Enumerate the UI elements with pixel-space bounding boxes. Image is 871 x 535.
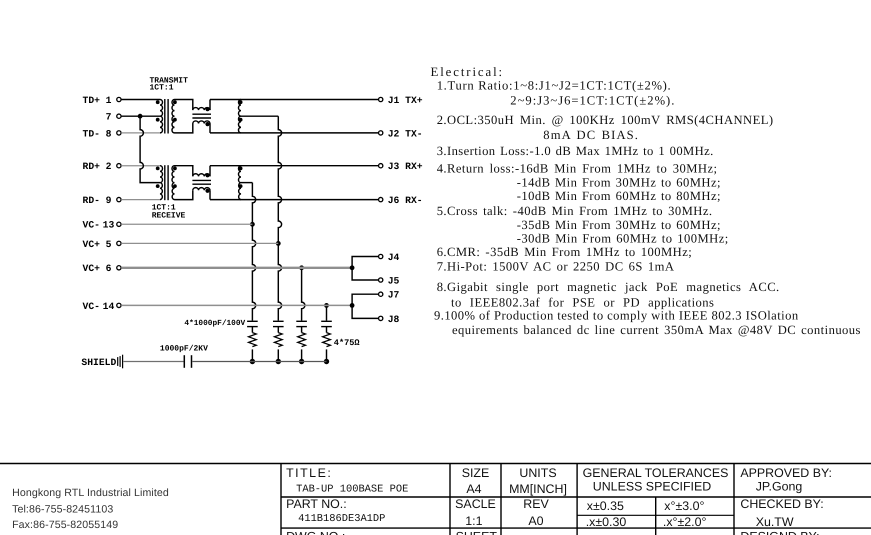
svg-text:SACLE: SACLE xyxy=(455,497,496,511)
wire pin7 lead xyxy=(121,115,160,117)
capacitor C5 (1000pF/2KV) xyxy=(184,355,191,368)
wire secondary bottom to choke CM2 (receive) xyxy=(175,190,193,199)
terminal circle J4 xyxy=(379,254,383,258)
svg-text:J5: J5 xyxy=(388,275,400,286)
svg-text:1:1: 1:1 xyxy=(465,514,482,528)
svg-text:UNLESS SPECIFIED: UNLESS SPECIFIED xyxy=(593,480,711,494)
wire C3 to R3 xyxy=(301,327,303,333)
pin 5 terminal circle xyxy=(117,241,121,245)
inductor L1 (transmit) phase dots xyxy=(239,100,243,121)
svg-text:RECEIVE: RECEIVE xyxy=(152,211,186,220)
svg-text:x±0.35: x±0.35 xyxy=(587,499,624,513)
junction shield bus 4 xyxy=(324,359,329,364)
inductor L1 (transmit) winding xyxy=(238,100,241,133)
svg-text:J3 RX+: J3 RX+ xyxy=(388,161,423,172)
svg-text:-10dB Min From 60MHz to 80MHz;: -10dB Min From 60MHz to 80MHz; xyxy=(517,189,721,203)
electrical notes text block xyxy=(431,65,861,337)
svg-text:13: 13 xyxy=(103,220,115,231)
svg-text:J6 RX-: J6 RX- xyxy=(388,195,423,206)
svg-text:5: 5 xyxy=(106,239,112,250)
svg-text:9: 9 xyxy=(106,195,112,206)
svg-text:1000pF/2KV: 1000pF/2KV xyxy=(160,344,208,353)
svg-text:-14dB Min From 30MHz to 60MHz;: -14dB Min From 30MHz to 60MHz; xyxy=(517,176,721,190)
transformer T1 (transmit) primary winding xyxy=(160,100,163,133)
svg-text:7: 7 xyxy=(106,112,112,123)
svg-text:411B186DE3A1DP: 411B186DE3A1DP xyxy=(298,513,385,525)
capacitor C3 (1000pF/100V) xyxy=(296,321,307,326)
svg-text:TD+: TD+ xyxy=(83,95,101,106)
terminal circle J3 xyxy=(379,164,383,168)
inductor L2 (receive) winding xyxy=(238,166,241,200)
svg-text:VC+: VC+ xyxy=(83,239,101,250)
junction shield bus 2 xyxy=(276,359,281,364)
svg-text:Hongkong RTL Industrial Limite: Hongkong RTL Industrial Limited xyxy=(12,487,169,499)
junction V3 / VC+6 xyxy=(299,265,304,270)
svg-text:TITLE:: TITLE: xyxy=(286,466,332,480)
choke CM1 (transmit) top winding xyxy=(193,108,210,111)
svg-text:A0: A0 xyxy=(528,514,543,528)
pin 2 terminal circle xyxy=(117,164,121,168)
svg-text:5.Cross talk: -40dB Min From: 5.Cross talk: -40dB Min From 1MHz to 30M… xyxy=(437,204,713,218)
svg-text:14: 14 xyxy=(103,301,115,312)
svg-text:equirements balanced dc line c: equirements balanced dc line current 350… xyxy=(452,323,861,337)
junction pin7 xyxy=(138,114,143,119)
svg-text:1.Turn Ratio:1~8:J1~J2=1CT:1CT: 1.Turn Ratio:1~8:J1~J2=1CT:1CT(±2%). xyxy=(437,79,672,93)
junction VC+6 / J4-J5 bracket xyxy=(350,265,355,270)
svg-text:SIZE: SIZE xyxy=(462,466,490,480)
pin 8 terminal circle xyxy=(117,131,121,135)
svg-text:3.Insertion Loss:-1.0 dB Max 1: 3.Insertion Loss:-1.0 dB Max 1MHz to 1 0… xyxy=(437,144,714,158)
capacitor C4 (1000pF/100V) xyxy=(321,321,332,326)
wire R2 to shield bus xyxy=(277,349,279,361)
terminal circle J2 xyxy=(379,131,383,135)
wire pin9 lead xyxy=(121,199,160,201)
svg-text:GENERAL TOLERANCES: GENERAL TOLERANCES xyxy=(583,466,729,480)
svg-text:4.Return loss:-16dB Min From 1: 4.Return loss:-16dB Min From 1MHz to 30M… xyxy=(437,161,718,175)
svg-text:Electrical:: Electrical: xyxy=(431,65,504,79)
wire C2 to R2 xyxy=(277,327,279,333)
choke CM2 (receive) bottom winding phase dot xyxy=(205,189,209,193)
svg-text:6.CMR: -35dB Min From 1MHz to: 6.CMR: -35dB Min From 1MHz to 100MHz; xyxy=(437,245,693,259)
svg-text:TAB-UP 100BASE POE: TAB-UP 100BASE POE xyxy=(296,483,408,495)
junction V1 / VC-13 xyxy=(250,222,255,227)
wire secondary top to choke CM1 (transmit) xyxy=(175,100,193,111)
svg-text:RD-: RD- xyxy=(83,195,100,206)
junction shield bus 1 xyxy=(250,359,255,364)
choke CM2 (receive) top winding xyxy=(193,174,210,177)
wire choke CM1 (transmit) bottom right riser xyxy=(209,124,211,133)
svg-text:-35dB Min From 30MHz to 60MHz;: -35dB Min From 30MHz to 60MHz; xyxy=(517,218,721,232)
transformer T2 (receive) core xyxy=(165,165,168,200)
wire bus V1 vertical xyxy=(252,183,255,321)
svg-text:8mA DC BIAS.: 8mA DC BIAS. xyxy=(543,128,639,142)
svg-text:VC+: VC+ xyxy=(83,263,101,274)
wire C4 to R4 xyxy=(326,327,328,333)
company name text xyxy=(12,487,169,531)
svg-text:J7: J7 xyxy=(388,290,400,301)
svg-text:9.100% of Production tested to: 9.100% of Production tested to comply wi… xyxy=(434,309,799,323)
pin 1 terminal circle xyxy=(117,97,121,101)
transformer T2 (receive) secondary phase dots xyxy=(173,167,177,189)
svg-text:J2 TX-: J2 TX- xyxy=(388,128,423,139)
choke CM2 (receive) core xyxy=(192,180,211,184)
svg-text:APPROVED BY:: APPROVED BY: xyxy=(740,466,832,480)
wire J3 line xyxy=(210,165,379,167)
terminal circle J6 xyxy=(379,197,383,201)
svg-text:DESIGND BY:: DESIGND BY: xyxy=(740,530,819,535)
wire choke CM2 (receive) bottom right riser xyxy=(209,190,211,199)
wire VC+6 lead xyxy=(121,267,352,269)
svg-text:TD-: TD- xyxy=(83,128,100,139)
choke CM1 (transmit) bottom winding xyxy=(193,121,210,124)
choke CM2 (receive) bottom winding xyxy=(193,188,210,191)
junction V4 / VC-14 xyxy=(324,303,329,308)
terminal circle J5 xyxy=(379,278,383,282)
svg-text:VC-: VC- xyxy=(83,220,100,231)
wire pin7 to RX center tap xyxy=(140,116,160,182)
svg-text:RD+: RD+ xyxy=(83,161,101,172)
wire secondary bottom to choke CM1 (transmit) xyxy=(175,124,193,133)
wire J2 line xyxy=(210,132,379,134)
choke CM1 (transmit) core xyxy=(192,114,211,118)
svg-text:Xu.TW: Xu.TW xyxy=(756,515,794,529)
transformer T2 (receive) primary phase dots xyxy=(156,167,160,189)
svg-text:SHIELD: SHIELD xyxy=(81,357,116,368)
wire J7-J8 bracket xyxy=(352,294,379,318)
wire bus V4 vertical xyxy=(326,305,328,320)
wire pin1 lead xyxy=(121,99,160,101)
wire pin8 lead xyxy=(121,132,160,134)
wire shield bus xyxy=(192,361,326,363)
wire VC-14 lead xyxy=(121,304,352,306)
choke CM1 (transmit) bottom winding phase dot xyxy=(205,122,209,126)
choke CM1 (transmit) top winding phase dot xyxy=(205,107,209,111)
pin 13 terminal circle xyxy=(117,222,121,226)
svg-text:to IEEE802.3af for PSE or PD a: to IEEE802.3af for PSE or PD application… xyxy=(451,296,714,310)
terminal circle J1 xyxy=(379,97,383,101)
svg-text:JP.Gong: JP.Gong xyxy=(756,480,803,494)
transformer T1 (transmit) primary phase dots xyxy=(156,100,160,121)
svg-text:.x±0.30: .x±0.30 xyxy=(586,515,627,529)
wire VC+5 lead xyxy=(121,242,278,244)
title block top border xyxy=(0,463,871,465)
junction shield bus 3 xyxy=(299,359,304,364)
wire bus V3 vertical xyxy=(302,268,305,321)
svg-text:J4: J4 xyxy=(388,252,400,263)
svg-text:1CT:1: 1CT:1 xyxy=(150,84,174,93)
svg-text:PART NO.:: PART NO.: xyxy=(286,497,347,511)
wire VC-13 lead xyxy=(121,223,252,225)
svg-text:2: 2 xyxy=(106,161,112,172)
resistor R2 (75ohm) xyxy=(274,333,282,347)
pin 6 terminal circle xyxy=(117,266,121,270)
svg-text:8: 8 xyxy=(106,128,112,139)
choke CM2 (receive) top winding phase dot xyxy=(205,173,209,177)
svg-text:4*75Ω: 4*75Ω xyxy=(334,338,360,348)
capacitor C1 (1000pF/100V) xyxy=(247,321,258,326)
svg-text:J8: J8 xyxy=(388,314,400,325)
wire bus V2 vertical xyxy=(278,116,281,320)
title block verticals xyxy=(281,464,734,535)
transformer T2 (receive) secondary winding xyxy=(172,166,175,200)
junction VC-14 / J7-J8 bracket xyxy=(350,303,355,308)
title block labels xyxy=(286,466,832,535)
wire R3 to shield bus xyxy=(301,349,303,361)
capacitor C2 (1000pF/100V) xyxy=(273,321,284,326)
svg-text:6: 6 xyxy=(106,263,112,274)
pin 9 terminal circle xyxy=(117,197,121,201)
wire L2 center tap to bus V1 xyxy=(241,182,252,184)
wire choke CM2 (receive) top right riser xyxy=(209,166,211,177)
svg-text:4*1000pF/100V: 4*1000pF/100V xyxy=(184,319,245,328)
inductor L2 (receive) phase dots xyxy=(239,167,243,189)
svg-text:2.OCL:350uH Min. @ 100KHz 100m: 2.OCL:350uH Min. @ 100KHz 100mV RMS(4CHA… xyxy=(437,113,774,127)
wire C1 to R1 xyxy=(251,327,253,333)
shield symbol (triple bar) xyxy=(118,355,123,369)
svg-text:2~9:J3~J6=1CT:1CT(±2%).: 2~9:J3~J6=1CT:1CT(±2%). xyxy=(510,93,675,107)
svg-text:7.Hi-Pot: 1500V AC or 2250 DC: 7.Hi-Pot: 1500V AC or 2250 DC 6S 1mA xyxy=(437,260,675,274)
terminal circle J7 xyxy=(379,292,383,296)
svg-text:.x°±2.0°: .x°±2.0° xyxy=(663,515,707,529)
part title values xyxy=(296,483,408,525)
svg-text:UNITS: UNITS xyxy=(519,466,556,480)
title block row dividers xyxy=(281,497,871,528)
svg-text:CHECKED BY:: CHECKED BY: xyxy=(740,497,823,511)
svg-text:DWG NO.:: DWG NO.: xyxy=(286,530,345,535)
svg-text:J1 TX+: J1 TX+ xyxy=(388,95,423,106)
wire J6 line xyxy=(210,199,379,201)
svg-text:SHEET: SHEET xyxy=(456,530,498,535)
junction V2 / VC+5 xyxy=(276,241,281,246)
svg-text:Fax:86-755-82055149: Fax:86-755-82055149 xyxy=(12,519,118,531)
pin 14 terminal circle xyxy=(117,303,121,307)
svg-text:1: 1 xyxy=(106,95,112,106)
svg-text:MM[INCH]: MM[INCH] xyxy=(509,482,567,496)
resistor R1 (75ohm) xyxy=(248,333,256,347)
resistor R4 (75ohm) xyxy=(323,333,331,347)
pin 7 terminal circle xyxy=(117,114,121,118)
wire choke CM1 (transmit) top right riser xyxy=(209,100,211,111)
terminal circle J8 xyxy=(379,316,383,320)
wire shield to C5 xyxy=(123,361,183,363)
svg-text:REV: REV xyxy=(523,497,549,511)
wire pin2 lead xyxy=(121,165,160,167)
transformer T1 (transmit) secondary phase dots xyxy=(173,100,177,121)
wire J4-J5 bracket xyxy=(352,257,379,281)
svg-text:8.Gigabit single port magnetic: 8.Gigabit single port magnetic jack PoE … xyxy=(437,280,780,294)
transformer T2 (receive) primary winding xyxy=(160,166,163,200)
svg-text:-30dB Min From 60MHz to 100MHz: -30dB Min From 60MHz to 100MHz; xyxy=(517,231,729,245)
svg-text:A4: A4 xyxy=(466,482,481,496)
wire J1 line xyxy=(210,99,379,101)
svg-text:VC-: VC- xyxy=(83,301,100,312)
wire R4 to shield bus xyxy=(326,349,328,361)
wire R1 to shield bus xyxy=(251,349,253,361)
svg-text:x°±3.0°: x°±3.0° xyxy=(664,499,704,513)
transformer T1 (transmit) secondary winding xyxy=(172,100,175,133)
wire L1 center tap to bus V2 xyxy=(241,115,278,117)
svg-text:Tel:86-755-82451103: Tel:86-755-82451103 xyxy=(12,503,113,515)
resistor R3 (75ohm) xyxy=(298,333,306,347)
wire secondary top to choke CM2 (receive) xyxy=(175,166,193,177)
transformer T1 (transmit) core xyxy=(165,99,168,134)
